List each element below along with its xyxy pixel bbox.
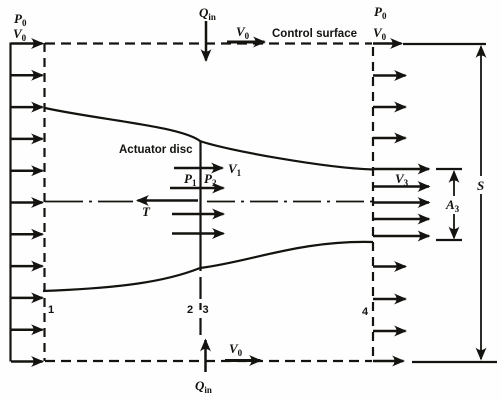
svg-text:2: 2 xyxy=(187,304,193,316)
control surface top dashed horizontal xyxy=(45,42,372,44)
svg-text:S: S xyxy=(477,178,484,193)
disc flow arrow row 3 xyxy=(172,213,224,216)
Qin top arrow (flow in through top surface) xyxy=(205,21,208,61)
svg-text:P0: P0 xyxy=(374,4,387,21)
bottom boundary line right of station 4 xyxy=(412,361,497,363)
V0 free stream arrow bottom xyxy=(225,359,261,362)
svg-text:V0: V0 xyxy=(373,25,387,42)
svg-text:Qin: Qin xyxy=(199,5,216,22)
svg-text:V0: V0 xyxy=(236,24,250,41)
svg-text:V3: V3 xyxy=(395,171,409,188)
S dimension vertical double arrow xyxy=(480,47,482,177)
control surface bottom dashed horizontal xyxy=(45,360,372,362)
svg-text:P2: P2 xyxy=(204,171,217,188)
left inflow vertical line (station 0 velocity profile baseline) xyxy=(9,43,11,362)
V1 arrow through disc xyxy=(174,167,223,170)
actuator disc line (stations 2-3) xyxy=(199,141,201,271)
svg-text:4: 4 xyxy=(362,306,369,318)
svg-text:Actuator disc: Actuator disc xyxy=(119,144,193,156)
svg-text:Qin: Qin xyxy=(195,378,212,395)
control surface left dashed vertical (station 1) xyxy=(43,43,45,361)
disc flow arrow row 2 xyxy=(170,187,224,190)
control surface right dashed vertical (station 4) xyxy=(372,47,374,361)
disc flow arrow row 4 xyxy=(172,232,224,235)
svg-text:T: T xyxy=(142,204,151,219)
svg-text:V0: V0 xyxy=(229,341,243,358)
top boundary line right of station 4 xyxy=(403,43,486,45)
svg-text:3: 3 xyxy=(203,304,209,316)
svg-text:V0: V0 xyxy=(13,26,27,43)
svg-text:A3: A3 xyxy=(445,197,460,214)
thrust arrow T (points left) xyxy=(138,199,199,202)
Qin bottom arrow (flow in through bottom surface) xyxy=(204,340,207,372)
svg-text:V1: V1 xyxy=(228,161,242,178)
slipstream outflow long arrows V3 xyxy=(373,169,429,236)
centreline dash-dot left segment xyxy=(45,201,133,203)
slipstream lower boundary curve xyxy=(43,242,373,291)
svg-text:Control surface: Control surface xyxy=(272,28,357,40)
centreline dash-dot right segment xyxy=(207,201,377,203)
right outflow short arrows V0 (outside slipstream) xyxy=(373,44,406,362)
A3 dimension bottom tick xyxy=(436,239,462,241)
A3 dimension top tick xyxy=(436,168,462,170)
svg-text:P1: P1 xyxy=(184,171,197,188)
V0 free stream arrow top xyxy=(227,41,265,44)
slipstream upper boundary curve xyxy=(45,108,373,170)
left velocity profile arrows V0 xyxy=(11,44,43,362)
svg-text:1: 1 xyxy=(48,304,54,316)
A3 dimension vertical double arrow xyxy=(453,172,455,197)
